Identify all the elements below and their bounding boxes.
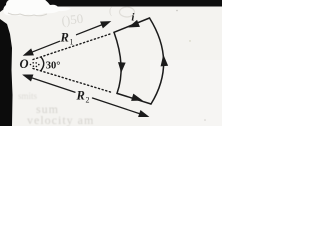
- dots at O vertex: [30, 62, 40, 67]
- wire: outer arc R2: [150, 18, 164, 104]
- R2 near arrowhead: [24, 75, 33, 80]
- wire: bottom radial segment: [117, 93, 151, 104]
- blob shadow scallops: [8, 13, 47, 16]
- svg-text:30°: 30°: [46, 60, 61, 71]
- R1 near arrowhead: [25, 50, 34, 56]
- R1 dimension line: [32, 41, 60, 52]
- scan border: top black band: [0, 0, 222, 7]
- wire: inner arc R1: [114, 32, 121, 93]
- dotted radius line to inner arc (lower): [33, 69, 112, 93]
- scan border: top-left corner black: [0, 0, 16, 12]
- svg-text:R: R: [76, 88, 85, 102]
- R1 far arrowhead: [101, 22, 110, 28]
- current arrow on outer arc (pointing up): [161, 57, 167, 66]
- current arrow on inner arc (pointing down): [119, 63, 125, 71]
- svg-text:O: O: [20, 57, 29, 71]
- faint bleed-through words bottom: [18, 91, 94, 127]
- current arrow on bottom segment (pointing outward): [132, 95, 141, 101]
- wire: top radial segment: [114, 18, 150, 32]
- white blob (torn paper) top-left: [3, 0, 71, 16]
- R2 dimension line: [32, 78, 76, 93]
- svg-text:velocity am: velocity am: [27, 113, 94, 126]
- svg-text:1: 1: [70, 37, 74, 46]
- faint bleed-through marks top: [61, 6, 113, 28]
- R2 far arrowhead: [139, 111, 148, 116]
- faint circle artifact: [120, 7, 135, 17]
- dotted radius line to inner arc (upper): [33, 34, 112, 60]
- svg-text:R: R: [60, 30, 69, 44]
- paper background: [0, 0, 222, 126]
- svg-text:2: 2: [86, 95, 90, 104]
- svg-text:smits: smits: [18, 91, 38, 101]
- current arrow on top segment (pointing inward): [130, 21, 139, 27]
- scan border: left black strip: [0, 19, 13, 126]
- svg-text:()50: ()50: [61, 11, 84, 28]
- 30 degree angle arc: [41, 57, 44, 70]
